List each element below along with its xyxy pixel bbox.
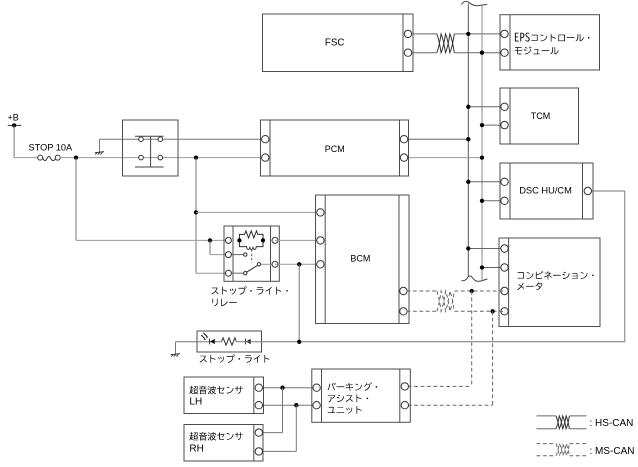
wire junction down to BCM and relay pin 3 [195,158,197,274]
wire ground to stop light [176,342,222,354]
svg-text:PCM: PCM [325,144,345,154]
junction BCM feed [194,210,198,214]
wire ground to switch to PCM top row [100,139,266,151]
module parking assist unit [312,369,411,422]
node +B supply [8,112,22,127]
svg-text:DSC HU/CM: DSC HU/CM [519,186,572,196]
junction stop light row [297,340,301,344]
junction relay coil feed [208,238,212,242]
wire +B down to fuse row [14,125,38,157]
junction sonar row 1 [280,386,284,390]
wire fuse to stop light switch to PCM pin (power row) [60,157,265,159]
module BCM [316,195,410,324]
module TCM [500,88,579,144]
junction fuse row / feed down [74,155,78,159]
junction sonar row 2 [294,403,298,407]
relay pins [225,237,278,276]
MS-CAN wire down to parking assist pin 2 [408,311,493,405]
label stop light relay [211,286,287,306]
stop light switch plungers [135,136,164,167]
wire to sonar RH pin 2 [259,405,297,451]
bus break squiggle bottom [462,276,488,281]
svg-text:BCM: BCM [350,253,370,263]
module sonar RH [184,425,263,462]
wire relay output to BCM pin 3 [275,263,320,265]
wire FSC CAN leads [408,34,505,53]
relay resistor (coil parallel resistor) [239,231,263,241]
wire PCM to bus [408,139,482,157]
module PCM [261,120,409,176]
wire bus to DSC [468,182,504,201]
wire bus to TCM [468,107,504,125]
wire bus to combination meter [468,249,504,268]
bus junctions [466,32,484,270]
legend MS-CAN symbol [537,444,635,457]
wire junction to relay pin 2 [210,240,228,254]
twisted pair FSC-EPS [437,34,455,53]
relay coil [239,240,263,249]
stop light diode [246,339,251,345]
wire relay output down to stop light row [298,264,300,342]
stop light resistor [222,338,237,345]
relay coil junction dots [237,238,265,242]
legend HS-CAN symbol [537,416,634,429]
stop light relay box [224,226,279,281]
svg-text:: HS-CAN: : HS-CAN [590,418,634,429]
wire stop light long row to DSC [236,191,625,342]
junction relay output [297,262,301,266]
wire fuse feed down to relay [76,158,228,241]
ground (stop light) [171,354,180,357]
MS-CAN junctions [470,289,495,314]
stop light box [197,331,262,352]
MS-CAN wire BCM to meter row 1 [407,290,505,292]
module combination meter [499,238,600,327]
ground (switch) [95,152,104,155]
stop light switch box [123,120,179,176]
stop light LED arrows [201,333,208,340]
junction after switch [194,155,198,159]
relay switch arm [247,266,258,273]
relay actuator dashed link [251,250,253,263]
svg-text:RH: RH [189,444,203,455]
wire to relay pin 3 [196,272,228,274]
wire to sonar RH pin 1 [259,388,283,433]
twisted pair BCM-meter (MS-CAN) [437,291,455,311]
wire to BCM pin 1 [196,211,320,213]
module FSC [263,14,414,72]
MS-CAN wire BCM to meter row 2 [407,310,505,312]
svg-text:STOP 10A: STOP 10A [29,142,73,152]
module DSC HU/CM [500,163,593,219]
module EPS control module [500,15,600,70]
fuse STOP 10A [29,142,73,160]
HS-CAN bus line 1 [467,4,469,277]
svg-text:+B: +B [8,112,19,122]
relay contact circles [244,253,261,275]
relay contact wires [228,255,275,274]
label stop light [200,355,270,363]
wire relay coil out to BCM pin 2 [275,239,320,241]
FSC pins [404,30,411,56]
wire sonar LH row 2 [259,404,317,406]
stop light LED diode [210,339,215,345]
module sonar LH [184,377,264,414]
svg-text:LH: LH [189,396,202,407]
HS-CAN bus line 2 [481,6,483,280]
svg-text:FSC: FSC [325,37,345,48]
wire sonar LH row 1 [259,387,317,389]
bus break squiggle top [462,1,488,5]
svg-text:: MS-CAN: : MS-CAN [590,446,635,457]
MS-CAN wire down to parking assist pin 1 [408,291,472,386]
stop light switch contacts [139,137,163,160]
svg-text:TCM: TCM [531,111,551,121]
